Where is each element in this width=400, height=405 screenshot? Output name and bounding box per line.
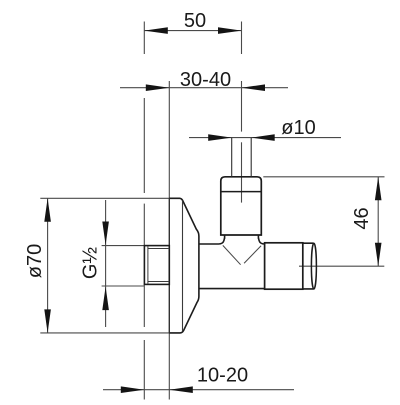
valve body bottom edge	[199, 288, 265, 290]
valve head (bonnet) outline	[221, 177, 261, 235]
dimension ø70: bottom extension line	[40, 332, 169, 334]
dimension G1/2: top extension line	[102, 245, 145, 247]
spindle left line	[231, 138, 233, 177]
dimension 46: bottom arrow	[375, 243, 382, 267]
dimension ø10: right arrow (outside, pointing left)	[251, 134, 275, 141]
valve body top edge with neck fillets	[199, 238, 265, 244]
G1/2 wall thread stub outline	[144, 246, 169, 285]
thread-end plane extension line, middle segments	[143, 98, 145, 193]
dimension ø10: dimension line	[189, 137, 341, 139]
svg-text:50: 50	[184, 10, 206, 32]
bonnet neck sides	[225, 235, 259, 238]
wall-mount bell (escutcheon) outline	[169, 198, 199, 333]
outlet end piece top/bottom edges	[303, 243, 314, 289]
bell left edge (against wall)	[168, 198, 170, 333]
svg-text:ø10: ø10	[281, 117, 315, 139]
svg-text:G½: G½	[80, 247, 102, 280]
head internal line	[221, 191, 261, 193]
thread chamfer line	[147, 246, 149, 283]
dimension 46: top arrow	[375, 177, 382, 201]
thread root line top	[148, 248, 169, 250]
svg-text:10-20: 10-20	[197, 365, 248, 387]
dimension 30-40: dimension line	[120, 87, 288, 89]
dimension ø70: top extension line	[40, 197, 169, 199]
dimension ø70: bottom arrow	[44, 309, 51, 333]
svg-text:46: 46	[351, 207, 373, 229]
dimension 50: left arrow	[144, 27, 168, 34]
dimension ø10: left arrow (outside, pointing right)	[208, 134, 232, 141]
wall plane extension line (long vertical at wall surface)	[168, 81, 170, 400]
dimension 46: dimension line	[377, 177, 379, 266]
outlet centerline (also bottom extension of 46 dim)	[299, 265, 384, 267]
dimension G1/2: bottom extension line	[102, 285, 145, 287]
dimension ø70: top arrow	[44, 198, 51, 222]
outlet compression nut	[265, 243, 303, 289]
bell rim crease line	[182, 201, 184, 332]
outlet pipe end ellipse	[311, 243, 316, 289]
thread-end plane extension line, upper segment (for 50 dim)	[143, 22, 145, 55]
dimension 30-40: left arrow (outside, pointing right)	[146, 84, 170, 91]
dimension ø70: dimension line	[47, 198, 49, 333]
dimension G1/2: top arrow (outside, pointing down)	[102, 222, 109, 246]
dimension 50: right arrow	[218, 27, 242, 34]
thread root line bottom	[148, 281, 169, 283]
dimension 50: dimension line	[144, 30, 241, 32]
spindle right line	[250, 138, 252, 177]
dimension 10-20: left arrow (outside, pointing right)	[121, 386, 145, 393]
svg-text:30-40: 30-40	[180, 69, 231, 91]
head axis center/extension line segments (x=241.5)	[241, 22, 243, 55]
dimension 46: top extension line (from head top)	[263, 176, 384, 178]
thread-end plane extension line, lower segments (for 10-20 dim)	[143, 285, 145, 327]
dimension 10-20: dimension line	[103, 389, 294, 391]
dimension 30-40: right arrow (outside, pointing left)	[242, 84, 266, 91]
dimension G1/2: dimension line	[105, 200, 107, 327]
valve seat V lines	[223, 245, 261, 264]
dimension 10-20: right arrow (outside, pointing left)	[169, 386, 193, 393]
svg-text:ø70: ø70	[24, 244, 46, 278]
dimension G1/2: bottom arrow (outside, pointing up)	[102, 287, 109, 311]
